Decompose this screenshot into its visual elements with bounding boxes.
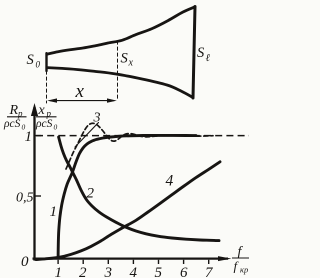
x-axis arrowhead	[218, 256, 232, 261]
axis label fraction bar	[232, 257, 249, 259]
svg-text:1: 1	[55, 265, 63, 278]
paper background	[0, 0, 252, 278]
svg-text:x: x	[75, 81, 85, 102]
svg-text:кр: кр	[240, 265, 248, 275]
curve 4	[36, 162, 220, 260]
svg-text:2: 2	[79, 265, 87, 278]
horn upper wall	[47, 7, 195, 54]
fraction xp bar	[36, 116, 57, 118]
curve 3 dashed	[66, 123, 213, 169]
throat extension dashed line	[46, 71, 48, 103]
svg-text:4: 4	[130, 265, 138, 278]
horn throat line	[45, 53, 47, 71]
x-axis ticks	[58, 260, 209, 264]
asymptote dashed line y=1	[36, 135, 249, 137]
leader line for label 3	[75, 123, 99, 148]
svg-text:3: 3	[104, 265, 113, 278]
svg-text:0: 0	[54, 123, 58, 132]
svg-text:0,5: 0,5	[16, 191, 34, 206]
y-axis tick 0,5	[35, 195, 41, 197]
svg-text:2: 2	[87, 186, 95, 202]
svg-text:S: S	[27, 52, 35, 68]
svg-text:x: x	[38, 103, 46, 118]
svg-text:4: 4	[166, 173, 174, 190]
svg-text:ρcS: ρcS	[3, 118, 21, 130]
section Sx dashed line	[117, 41, 119, 101]
dimension arrow right	[107, 98, 117, 102]
svg-text:3: 3	[93, 111, 101, 126]
horn lower wall	[47, 68, 193, 98]
svg-text:x: x	[128, 58, 134, 69]
svg-text:6: 6	[180, 265, 188, 278]
dimension arrow left	[47, 98, 57, 102]
svg-text:0: 0	[36, 60, 41, 70]
horn mouth line	[193, 7, 195, 99]
svg-text:ρcS: ρcS	[35, 118, 53, 130]
svg-text:5: 5	[155, 265, 163, 278]
svg-text:ℓ: ℓ	[206, 53, 211, 64]
svg-text:R: R	[9, 103, 19, 118]
svg-text:S: S	[121, 51, 129, 67]
y-axis	[33, 107, 35, 261]
fraction Rp bar	[7, 116, 27, 118]
curve 1	[58, 135, 196, 258]
svg-text:0: 0	[21, 254, 29, 270]
svg-text:1: 1	[50, 204, 58, 220]
svg-text:1: 1	[25, 129, 33, 145]
x-axis	[33, 257, 229, 259]
dimension line x	[50, 100, 114, 102]
y-axis tick 1	[35, 135, 41, 137]
svg-text:S: S	[197, 45, 205, 61]
y-axis arrowhead	[31, 103, 38, 116]
curve 2	[59, 137, 219, 241]
